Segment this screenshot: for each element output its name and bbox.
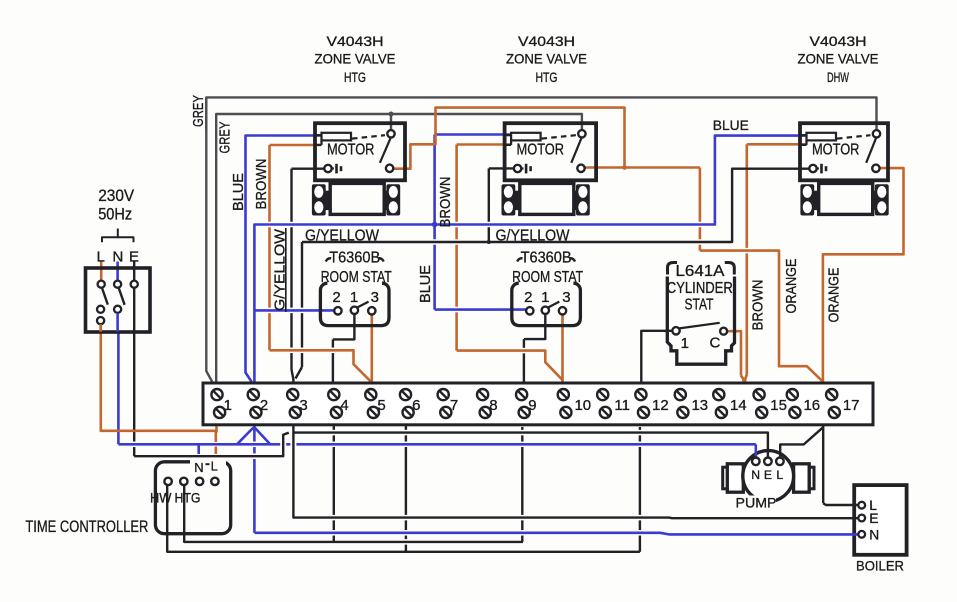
svg-text:E: E (869, 511, 878, 526)
svg-text:230V: 230V (98, 187, 134, 205)
svg-text:8: 8 (489, 397, 497, 414)
svg-text:10: 10 (574, 397, 591, 414)
svg-text:ZONE VALVE: ZONE VALVE (798, 52, 879, 67)
svg-text:5: 5 (377, 397, 385, 414)
svg-text:DHW: DHW (827, 70, 849, 85)
svg-text:BROWN: BROWN (749, 280, 766, 331)
svg-text:9: 9 (528, 397, 536, 414)
svg-text:V4043H: V4043H (810, 34, 867, 49)
svg-text:15: 15 (770, 397, 787, 414)
svg-text:ZONE VALVE: ZONE VALVE (315, 52, 396, 67)
svg-text:12: 12 (652, 397, 669, 414)
svg-text:50Hz: 50Hz (98, 206, 132, 224)
svg-text:L641A: L641A (676, 263, 726, 280)
svg-text:HW: HW (150, 491, 172, 506)
svg-text:BLUE: BLUE (417, 265, 434, 303)
svg-text:T6360B: T6360B (521, 249, 572, 266)
svg-text:2: 2 (524, 289, 532, 306)
svg-text:N: N (112, 248, 123, 265)
svg-text:ORANGE: ORANGE (783, 259, 800, 314)
svg-text:PUMP: PUMP (736, 496, 777, 511)
svg-text:V4043H: V4043H (327, 34, 384, 49)
svg-text:MOTOR: MOTOR (517, 142, 565, 159)
svg-text:GREY: GREY (190, 95, 207, 127)
svg-text:CYLINDER: CYLINDER (667, 280, 733, 297)
svg-text:14: 14 (730, 397, 747, 414)
svg-text:16: 16 (803, 397, 820, 414)
svg-text:BLUE: BLUE (713, 117, 749, 133)
svg-text:E: E (129, 248, 139, 265)
svg-text:11: 11 (614, 397, 630, 414)
svg-text:STAT: STAT (685, 296, 714, 313)
svg-text:1: 1 (681, 335, 689, 352)
svg-text:E: E (764, 468, 772, 482)
svg-text:GREY: GREY (217, 122, 234, 154)
svg-text:BROWN: BROWN (253, 159, 270, 210)
svg-text:3: 3 (562, 289, 570, 306)
svg-text:13: 13 (691, 397, 708, 414)
svg-text:T6360B: T6360B (329, 249, 380, 266)
svg-text:V4043H: V4043H (518, 34, 575, 49)
svg-text:TIME CONTROLLER: TIME CONTROLLER (25, 518, 148, 536)
svg-text:ROOM STAT: ROOM STAT (321, 269, 392, 286)
svg-text:7: 7 (450, 397, 458, 414)
svg-text:4: 4 (340, 397, 348, 414)
svg-text:G/YELLOW: G/YELLOW (305, 227, 379, 244)
svg-text:C: C (709, 335, 720, 352)
svg-text:2: 2 (332, 289, 340, 306)
svg-text:ROOM STAT: ROOM STAT (512, 269, 583, 286)
svg-text:6: 6 (412, 397, 420, 414)
svg-text:N: N (751, 468, 760, 482)
svg-text:BLUE: BLUE (230, 173, 247, 211)
svg-text:N: N (194, 460, 203, 475)
svg-text:3: 3 (371, 289, 379, 306)
svg-text:HTG: HTG (344, 70, 366, 85)
svg-text:1: 1 (224, 397, 232, 414)
svg-text:L: L (211, 458, 218, 473)
svg-text:MOTOR: MOTOR (812, 142, 860, 159)
svg-text:ZONE VALVE: ZONE VALVE (506, 52, 587, 67)
svg-text:17: 17 (843, 397, 860, 414)
svg-text:ORANGE: ORANGE (826, 268, 843, 323)
svg-text:3: 3 (299, 397, 307, 414)
svg-text:L: L (776, 468, 783, 482)
svg-text:2: 2 (260, 397, 268, 414)
svg-text:BOILER: BOILER (856, 558, 904, 574)
svg-text:1: 1 (541, 289, 549, 306)
svg-text:MOTOR: MOTOR (327, 142, 375, 159)
svg-text:HTG: HTG (536, 70, 558, 85)
svg-text:1: 1 (350, 289, 358, 306)
svg-text:N: N (869, 527, 879, 542)
svg-text:BROWN: BROWN (437, 177, 454, 228)
svg-text:HTG: HTG (175, 491, 201, 506)
svg-text:G/YELLOW: G/YELLOW (496, 227, 570, 244)
svg-text:L: L (96, 248, 104, 265)
